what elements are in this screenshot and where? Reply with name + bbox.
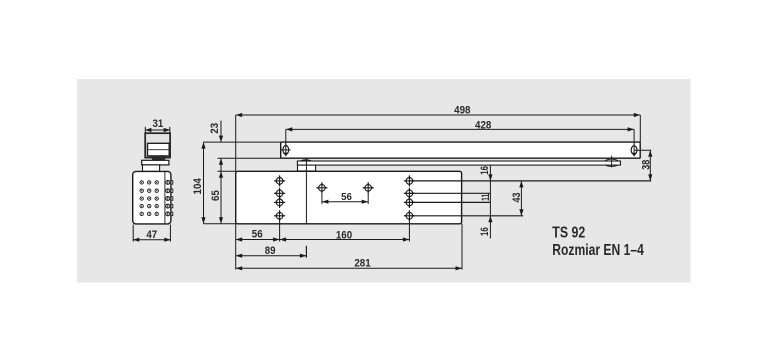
svg-text:498: 498 bbox=[454, 105, 470, 117]
svg-text:56: 56 bbox=[252, 228, 263, 240]
svg-text:31: 31 bbox=[153, 118, 164, 130]
svg-text:104: 104 bbox=[192, 177, 204, 194]
svg-text:TS 92: TS 92 bbox=[552, 225, 585, 242]
svg-text:Rozmiar EN 1–4: Rozmiar EN 1–4 bbox=[552, 242, 644, 259]
svg-text:38: 38 bbox=[641, 160, 653, 170]
svg-text:428: 428 bbox=[475, 120, 491, 132]
svg-text:23: 23 bbox=[209, 123, 221, 134]
svg-text:160: 160 bbox=[336, 229, 352, 241]
svg-text:56: 56 bbox=[341, 192, 352, 203]
svg-text:16: 16 bbox=[479, 166, 491, 175]
svg-text:281: 281 bbox=[354, 258, 370, 270]
svg-text:65: 65 bbox=[210, 190, 222, 201]
svg-text:89: 89 bbox=[265, 245, 276, 257]
svg-text:43: 43 bbox=[511, 193, 523, 203]
svg-text:11: 11 bbox=[480, 194, 492, 201]
svg-text:47: 47 bbox=[146, 229, 157, 241]
svg-text:16: 16 bbox=[479, 227, 491, 236]
